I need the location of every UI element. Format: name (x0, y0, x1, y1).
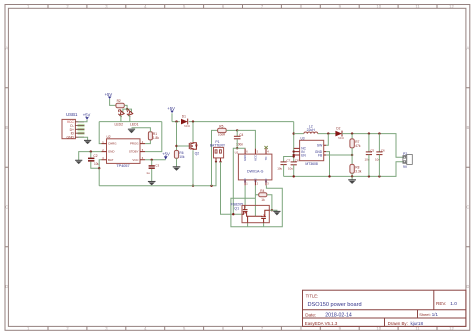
svg-text:SW: SW (317, 144, 323, 148)
title block outline (303, 290, 466, 326)
svg-text:C2: C2 (93, 154, 97, 158)
svg-text:CHRG: CHRG (108, 142, 117, 146)
wire CS loop down (254, 195, 256, 199)
junction DW01 GND riser to B- (232, 213, 234, 215)
svg-text:47k: 47k (355, 144, 361, 148)
wire BAT pin (99, 160, 101, 169)
svg-text:10k: 10k (179, 155, 185, 159)
svg-text:Q2: Q2 (195, 152, 200, 156)
svg-text:TD: TD (264, 157, 268, 161)
wire STDBY riser (145, 122, 162, 152)
wire output ground rail (284, 162, 403, 177)
capacitor C5 (365, 134, 375, 177)
svg-text:R5: R5 (219, 124, 223, 128)
no-connect X on TD pin (264, 146, 267, 149)
svg-text:Drawn By:: Drawn By: (388, 321, 408, 326)
wire Q1 source stubs (248, 223, 264, 227)
junction R5 riser on B+ rail (210, 185, 212, 187)
resistor R1 (132, 128, 160, 140)
svg-text:A: A (467, 46, 470, 51)
svg-text:B: B (5, 125, 8, 130)
svg-text:VCC: VCC (253, 155, 257, 161)
ground (R1/PROG) (128, 129, 135, 133)
svg-text:C8: C8 (295, 158, 299, 162)
wire P1 pin1 to B+ rail (215, 162, 217, 186)
resistor R7 (350, 134, 361, 155)
svg-text:Sheet:: Sheet: (419, 312, 431, 317)
svg-text:BAT: BAT (108, 158, 114, 162)
junction Q2 bottom on B+ rail (192, 185, 194, 187)
svg-text:12: 12 (449, 4, 454, 9)
connector USB1 (62, 112, 78, 140)
svg-text:3.3k: 3.3k (355, 169, 361, 173)
wire VOUT rail (342, 134, 403, 158)
svg-text:R2: R2 (117, 99, 121, 103)
diode D1 (180, 114, 191, 128)
wire DW01 GND net (233, 148, 245, 214)
svg-text:VCC: VCC (132, 158, 138, 162)
svg-text:kjur18: kjur18 (411, 321, 424, 326)
diode D2 (335, 127, 344, 141)
ground (output rail) (348, 176, 356, 184)
svg-text:C4: C4 (239, 133, 243, 137)
svg-text:D: D (5, 284, 8, 289)
dual mosfet Q1 FS8205 (231, 203, 270, 223)
svg-text:C3: C3 (155, 163, 159, 167)
resistor R8 (350, 155, 362, 176)
svg-text:Date:: Date: (305, 312, 316, 317)
title block row lines (303, 310, 466, 318)
wire USB GND down (78, 137, 87, 140)
junction C6 bottom (378, 175, 380, 177)
svg-text:1/1: 1/1 (432, 312, 439, 317)
svg-text:LED2: LED2 (115, 122, 124, 126)
svg-text:EN: EN (301, 153, 306, 157)
svg-text:A: A (5, 46, 8, 51)
capacitor C7 (277, 158, 290, 176)
svg-text:+5V: +5V (83, 113, 91, 118)
border row letters right (466, 46, 469, 290)
junction Q2 top (192, 120, 194, 122)
wire B+ rail (99, 162, 216, 186)
IC U3 MT3608 (294, 137, 326, 166)
power flag +5V (USB) (83, 113, 91, 120)
junction C3 top (151, 159, 153, 161)
junction C4 top (236, 129, 238, 131)
ground (Q1 / system) (273, 211, 280, 215)
border row letters left (5, 46, 8, 290)
junction SW riser (327, 132, 329, 134)
svg-text:PROG: PROG (130, 142, 139, 146)
border column ticks top (48, 5, 437, 9)
IC U1 DW01A-G (235, 149, 272, 186)
junction L2 tap (293, 132, 295, 134)
title block column lines (385, 290, 434, 326)
svg-text:C7: C7 (287, 158, 291, 162)
wire P1 pin2 B- riser (221, 162, 243, 215)
wire gate to Q2 (177, 145, 190, 147)
svg-text:C: C (466, 205, 469, 210)
wire GND pin TP4057 (79, 152, 102, 161)
wire CHRG to LED2 (99, 122, 101, 144)
svg-text:C6: C6 (381, 149, 385, 153)
wire OD to Q1 gate1 (244, 185, 246, 208)
wire VIN rail (D1 row) (172, 121, 294, 123)
svg-text:D2: D2 (336, 127, 340, 131)
svg-text:TP4057: TP4057 (116, 164, 129, 168)
svg-text:C5: C5 (370, 149, 374, 153)
power flag +5V (D1) (167, 106, 175, 122)
wire VCC pin TP4057 (145, 159, 166, 161)
svg-text:10u: 10u (288, 166, 293, 170)
wire PROG pin to R1 (145, 140, 150, 144)
svg-text:SS34: SS34 (184, 125, 191, 128)
capacitor C3 (146, 160, 159, 181)
svg-text:EasyEDA V5.1.3: EasyEDA V5.1.3 (305, 321, 338, 326)
svg-text:DW01A-G: DW01A-G (247, 170, 264, 174)
inductor L2 (304, 124, 318, 133)
svg-text:+5V: +5V (105, 92, 113, 97)
junction Q1 drain2 / ground (271, 209, 273, 211)
svg-text:22uH: 22uH (307, 128, 316, 132)
resistor R6 (174, 150, 185, 166)
svg-text:2018-02-14: 2018-02-14 (325, 312, 352, 318)
svg-text:9V: 9V (403, 165, 408, 169)
svg-text:+5V: +5V (167, 106, 175, 111)
junction C7 tap (293, 155, 295, 157)
svg-text:C: C (5, 205, 8, 210)
border column ticks bottom (48, 326, 437, 330)
svg-text:1.8k: 1.8k (153, 136, 159, 140)
power flag +5V (R2) (105, 92, 116, 105)
junction GND riser (328, 175, 330, 177)
svg-text:11: 11 (415, 4, 420, 9)
resistor R4 (259, 189, 272, 210)
border row ticks left (5, 88, 8, 247)
junction FB node (351, 154, 353, 156)
capacitor C8 (288, 158, 299, 176)
LED LED1 (125, 109, 139, 126)
connector P1 BATTERY (210, 140, 226, 163)
svg-text:10u: 10u (277, 166, 282, 170)
junction LED anode node (126, 108, 128, 110)
IC U2 TP4057 (102, 135, 146, 168)
TITLEBLOCK (303, 290, 466, 326)
pin ID stub (78, 132, 85, 135)
transistor Q2 (189, 122, 199, 186)
ground (C2 area) (75, 160, 82, 164)
junction C4 bottom / DW01 GND (236, 147, 238, 149)
ground (R6) (173, 167, 181, 171)
svg-text:USB1: USB1 (66, 112, 78, 117)
capacitor C6 (375, 134, 385, 177)
svg-text:R4: R4 (260, 189, 264, 193)
connector P2 (403, 152, 412, 169)
wire BAT node down to B+ rail (98, 168, 100, 186)
junction C6 top (378, 132, 380, 134)
wire LED anode branches (123, 109, 132, 112)
svg-text:MT3608: MT3608 (305, 162, 318, 166)
svg-text:GND: GND (66, 136, 74, 140)
power flag +5V (TP VCC) (162, 152, 170, 160)
svg-text:B: B (467, 125, 470, 130)
wire USB VCC to +5V (78, 120, 87, 122)
svg-text:GND: GND (108, 150, 114, 154)
svg-text:1u: 1u (146, 171, 150, 175)
wire LED cathode rail (99, 121, 162, 123)
wire L2 row (294, 133, 336, 135)
pin D+ stub (78, 128, 85, 131)
wire R5 node to DW01 VCC (237, 130, 255, 148)
capacitor C2 (88, 152, 100, 169)
junction gate branch (175, 120, 177, 122)
junction EN pin (293, 154, 295, 156)
svg-text:1.0: 1.0 (450, 301, 457, 307)
svg-text:STDBY: STDBY (129, 150, 139, 154)
border row ticks right (466, 88, 470, 247)
svg-text:DSO150 power board: DSO150 power board (308, 302, 362, 308)
svg-text:REV.: REV. (436, 301, 446, 306)
wire Q1 source loop left (231, 185, 282, 226)
resistor R2 (116, 99, 127, 112)
junction C5 top (368, 132, 370, 134)
wire C7 top link (284, 157, 294, 162)
border column numbers bottom (27, 326, 454, 331)
wire FB to divider (326, 154, 352, 156)
svg-text:GND: GND (243, 155, 247, 161)
capacitor C4 (234, 130, 244, 148)
wire R5 riser (212, 130, 218, 185)
svg-text:1k: 1k (261, 198, 265, 202)
junction IN pin (293, 150, 295, 152)
wire gate/R6 branch (176, 122, 178, 151)
svg-text:LED1: LED1 (130, 122, 139, 126)
svg-text:+5V: +5V (162, 152, 170, 157)
ground (USB) (84, 140, 91, 144)
junction gate node (175, 145, 177, 147)
wire Q1 drain2 stub (269, 210, 277, 211)
junction C2 top (90, 150, 92, 152)
svg-text:D1: D1 (182, 114, 186, 118)
wire VIN riser (293, 122, 295, 162)
junction C5 bottom (368, 175, 370, 177)
svg-text:TITLE:: TITLE: (306, 294, 319, 299)
svg-text:Q1: Q1 (234, 206, 239, 210)
svg-text:SS34: SS34 (338, 137, 345, 140)
ground (C3) (148, 182, 156, 186)
USB pin lines (75, 122, 84, 137)
junction R7 top (351, 132, 353, 134)
svg-text:100R: 100R (218, 133, 226, 137)
wire CS to R4 (255, 185, 258, 194)
wire SW riser (326, 134, 328, 146)
LED LED2 (115, 109, 125, 126)
svg-text:10: 10 (376, 4, 381, 9)
wire CS into Q1 sources (254, 198, 256, 216)
border column numbers top (27, 4, 454, 9)
pin D- stub (78, 124, 85, 127)
junction BAT node (98, 167, 100, 169)
svg-text:D: D (466, 284, 469, 289)
junction R8 bottom (351, 175, 353, 177)
junction C8 bottom (293, 175, 295, 177)
resistor R5 (218, 124, 238, 136)
wire GND drop (326, 152, 330, 177)
